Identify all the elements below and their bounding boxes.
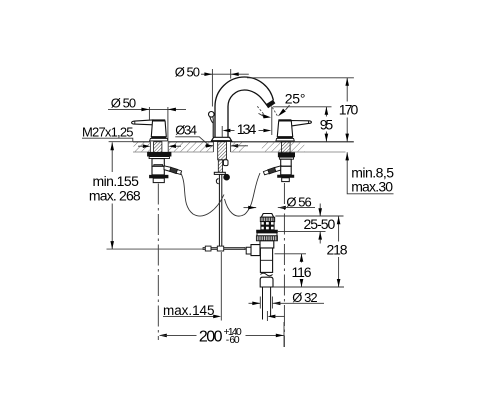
dimension 116 (275, 254, 312, 287)
drain pipe break squiggle (260, 273, 272, 276)
right flexible hose (225, 173, 261, 216)
left valve body (152, 159, 164, 167)
pop-up lift rod loop (210, 117, 214, 123)
left handle mounting nut (147, 152, 171, 157)
right handle bottom flange (277, 175, 294, 178)
dimension 218 (drain depth) (273, 216, 348, 287)
right side hose connector (274, 166, 281, 172)
drain flange (Ø56) (256, 230, 278, 233)
drain coupling (260, 277, 273, 287)
svg-text:Ø 50: Ø 50 (175, 65, 200, 80)
spout mounting nut (214, 172, 225, 174)
left handle centre line (dash-dot) (157, 184, 159, 341)
svg-text:max.30: max.30 (351, 179, 393, 195)
drain pop-up plug cap (261, 214, 273, 218)
left handle lever (132, 120, 153, 125)
spout shank lower (218, 160, 222, 173)
pop-up rod clevis (203, 247, 245, 249)
pop-up lift rod knob (209, 112, 215, 118)
right handle shank through deck (282, 142, 291, 154)
left handle cap (152, 119, 165, 121)
svg-text:Ø 50: Ø 50 (111, 95, 136, 110)
left side hose connector (164, 166, 171, 172)
deck cross-section bottom line (133, 151, 346, 153)
dimension Ø34 (spout hole) (175, 122, 248, 147)
dimension max.145 (163, 252, 285, 321)
svg-text:200: 200 (199, 329, 223, 346)
svg-text:Ø34: Ø34 (175, 122, 197, 137)
svg-text:25-50: 25-50 (304, 216, 336, 232)
svg-text:170: 170 (339, 102, 359, 118)
pop-up lift rod above deck (212, 123, 214, 138)
svg-text:M27x1,25: M27x1,25 (82, 124, 134, 139)
svg-text:95: 95 (320, 116, 334, 132)
left flexible hose (181, 173, 225, 216)
drain side outlet (251, 245, 260, 256)
dimension Ø56 (drain flange) (244, 195, 316, 210)
drain tail pipe (263, 287, 271, 320)
right handle centre line (dash-dot) (283, 183, 285, 347)
pop-up vertical rod (219, 174, 221, 249)
svg-text:max.145: max.145 (163, 303, 215, 318)
deck cross-section top line (133, 141, 354, 143)
deck hole arrows left handle (138, 144, 181, 148)
pop-up rod hook (216, 179, 218, 184)
pop-up horizontal rod (107, 248, 252, 250)
spout base escutcheon (211, 137, 232, 141)
spout shank side port (223, 160, 228, 166)
label M27x1,25 (82, 124, 134, 141)
left handle bottom flange (149, 175, 168, 178)
right handle cap (278, 119, 291, 121)
dimension 25-50 (pop-up height range) (275, 204, 343, 244)
svg-text:116: 116 (292, 264, 312, 280)
svg-text:- 60: - 60 (226, 335, 240, 346)
left handle base (151, 137, 166, 139)
drain lower body (260, 248, 272, 272)
dimension Ø32 (tail pipe) (249, 290, 325, 308)
right handle body (277, 121, 292, 137)
right handle mounting nut (278, 152, 295, 157)
drain plug ribbed band (260, 217, 274, 221)
right valve body (281, 159, 292, 166)
dimension 95 (outlet height) (273, 107, 333, 142)
dimension Ø50 left (108, 95, 186, 140)
deck hole walls (150, 142, 230, 152)
svg-text:134: 134 (237, 121, 257, 137)
left handle shank through deck (154, 142, 162, 154)
right handle lever (291, 121, 312, 127)
spout shank through deck (218, 142, 227, 160)
deck hatching (134, 142, 305, 151)
left handle body (151, 121, 166, 137)
dimension 134 (spout reach) (222, 106, 272, 137)
pop-up rod ball joint (223, 174, 230, 181)
angle 25 degrees annotation (257, 90, 305, 118)
drain plug stem grid (261, 222, 274, 230)
dimension Ø50 top (spout escutcheon) (175, 65, 249, 107)
spout aerator tip (266, 100, 276, 109)
dimension min.8,5 max.30 (deck thickness) (345, 152, 394, 194)
drain body ribbed ring (256, 236, 277, 241)
svg-text:218: 218 (327, 242, 348, 258)
svg-text:max. 268: max. 268 (89, 188, 141, 204)
dimension min.155 max.268 (89, 142, 141, 249)
dimension 170 (spout height) (247, 78, 359, 142)
drain body (260, 241, 274, 248)
svg-text:25°: 25° (285, 90, 306, 106)
spout body (gooseneck) (215, 77, 273, 137)
dimension 200 +140/-60 (handle spacing) (159, 322, 284, 347)
right handle base (277, 137, 293, 139)
